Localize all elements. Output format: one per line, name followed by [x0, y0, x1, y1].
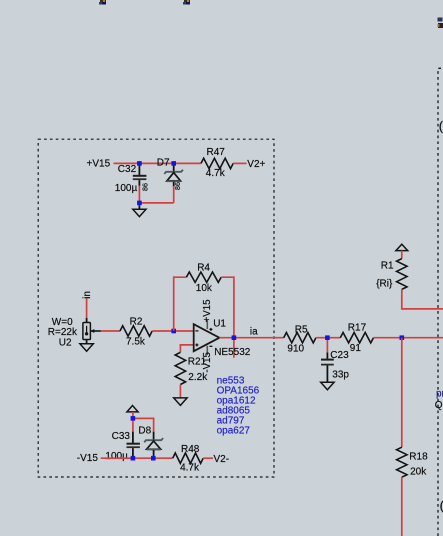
- alternative op-amp list (blue): [217, 376, 260, 437]
- wire output: [219, 337, 283, 339]
- svg-text:100µ: 100µ: [105, 451, 128, 462]
- wire R48 to V2-: [203, 457, 213, 459]
- net flag (above C33): [127, 406, 138, 412]
- clipped text fragment top-left 2: [183, 0, 190, 5]
- svg-text:910: 910: [287, 344, 304, 355]
- junction C23 node: [325, 335, 330, 340]
- svg-text:R47: R47: [207, 147, 226, 158]
- wire R5 to C23 node: [316, 337, 340, 339]
- wire R1 to right edge: [402, 289, 443, 309]
- ground (pot U2): [80, 344, 93, 352]
- svg-text:R1: R1: [381, 261, 394, 272]
- ground (C23): [321, 382, 334, 390]
- wire junction to C33: [132, 421, 134, 432]
- svg-text:4.7k: 4.7k: [180, 462, 200, 473]
- svg-text:33p: 33p: [332, 369, 349, 380]
- wire ground rail (C32/D7 bottoms): [139, 202, 173, 204]
- svg-text:D8: D8: [138, 426, 151, 437]
- svg-text:20k: 20k: [410, 467, 427, 478]
- resistor R21: [175, 352, 185, 384]
- svg-text:C33: C33: [112, 431, 131, 442]
- svg-text:(: (: [440, 498, 443, 513]
- wire node to R18: [401, 338, 403, 448]
- wire flag to R1: [401, 251, 403, 259]
- resistor R18: [397, 447, 407, 477]
- svg-text:C32: C32: [118, 164, 137, 175]
- junction C33 bottom: [131, 456, 136, 461]
- wire +V15 to C32: [114, 162, 140, 164]
- wire junction to D8 branch: [133, 418, 154, 431]
- wire non-inverting branch: [180, 345, 193, 352]
- clipped text fragment top-left 1: [99, 0, 106, 5]
- wire D7 to R47: [174, 162, 201, 164]
- wire flag to junction: [132, 412, 134, 419]
- resistor R1: [397, 259, 407, 290]
- wire C32 bottom: [138, 186, 140, 203]
- potentiometer U2: [83, 318, 101, 344]
- resistor R47: [201, 158, 233, 168]
- svg-text:4.7k: 4.7k: [206, 168, 226, 179]
- svg-text:R5: R5: [295, 325, 308, 336]
- svg-text:7.5k: 7.5k: [126, 336, 146, 347]
- net flag (R1 top): [396, 244, 408, 250]
- resistor R48: [173, 453, 204, 463]
- svg-text:Q2: Q2: [435, 400, 443, 411]
- svg-text:U1: U1: [213, 318, 226, 329]
- junction output node: [232, 335, 237, 340]
- svg-text:R18: R18: [409, 452, 428, 463]
- wire D7 bottom: [173, 186, 175, 203]
- svg-text:-V15: -V15: [77, 453, 99, 464]
- dashed box (stage enclosure): [38, 139, 274, 477]
- dashed box 2 (right edge, clipped): [438, 68, 443, 536]
- wire in to pot: [86, 299, 88, 319]
- svg-text:R2: R2: [130, 317, 143, 328]
- wire feedback up: [174, 277, 187, 331]
- junction D8 bottom: [151, 456, 156, 461]
- junction above C33: [131, 416, 136, 421]
- resistor R5: [284, 333, 316, 343]
- svg-text:pr: pr: [436, 388, 443, 399]
- svg-text:(: (: [439, 119, 443, 134]
- ground (top section): [133, 205, 146, 216]
- svg-text:91: 91: [350, 343, 362, 354]
- wire pot wiper to R2: [101, 330, 120, 332]
- capacitor C33: [127, 432, 140, 459]
- op-amp U1: [194, 320, 220, 355]
- wire R2 to inverting node: [152, 330, 194, 332]
- svg-text:V2-: V2-: [214, 454, 230, 465]
- capacitor C32: [133, 165, 147, 186]
- junction at ground rail: [137, 201, 142, 206]
- svg-text:100µ: 100µ: [115, 183, 138, 194]
- svg-text:2.2k: 2.2k: [188, 372, 208, 383]
- svg-text:opa627: opa627: [217, 425, 251, 436]
- capacitor C23: [321, 340, 334, 382]
- wire -V15 rail: [101, 457, 173, 459]
- resistor R2: [120, 326, 152, 336]
- svg-text:D7: D7: [157, 157, 170, 168]
- svg-text:U2: U2: [59, 337, 72, 348]
- zener diode D8: [144, 432, 163, 459]
- svg-text:in: in: [82, 291, 93, 299]
- junction at C32 top: [137, 161, 142, 166]
- wire R18 to bottom edge: [401, 477, 403, 536]
- svg-text:R17: R17: [348, 323, 367, 334]
- wire R47 to V2+: [233, 162, 246, 164]
- svg-text:R21: R21: [188, 357, 207, 368]
- svg-text:ia: ia: [250, 326, 258, 337]
- svg-text:{Ri}: {Ri}: [376, 278, 393, 289]
- resistor R17: [340, 333, 373, 343]
- zener diode D7: [164, 166, 183, 187]
- svg-text:+V15: +V15: [202, 299, 213, 322]
- resistor R4: [186, 272, 221, 282]
- clipped text fragment right-edge top: [438, 18, 443, 29]
- svg-text:R48: R48: [181, 444, 200, 455]
- svg-text:V2+: V2+: [247, 159, 265, 170]
- junction R18 node: [400, 335, 405, 340]
- wire R4 to output: [221, 277, 234, 358]
- junction inverting node: [171, 329, 176, 334]
- svg-text:NE5532: NE5532: [214, 347, 251, 358]
- wire C32 to D7: [139, 162, 173, 164]
- wire R17 to right edge: [374, 337, 443, 339]
- junction at D7 top: [171, 161, 176, 166]
- ground (R21): [174, 398, 187, 406]
- svg-text:C23: C23: [330, 350, 349, 361]
- svg-text:10k: 10k: [196, 283, 213, 294]
- svg-text:86: 86: [141, 183, 150, 191]
- svg-text:+V15: +V15: [87, 159, 111, 170]
- wire R21 to ground: [179, 385, 181, 398]
- svg-text:R4: R4: [197, 263, 210, 274]
